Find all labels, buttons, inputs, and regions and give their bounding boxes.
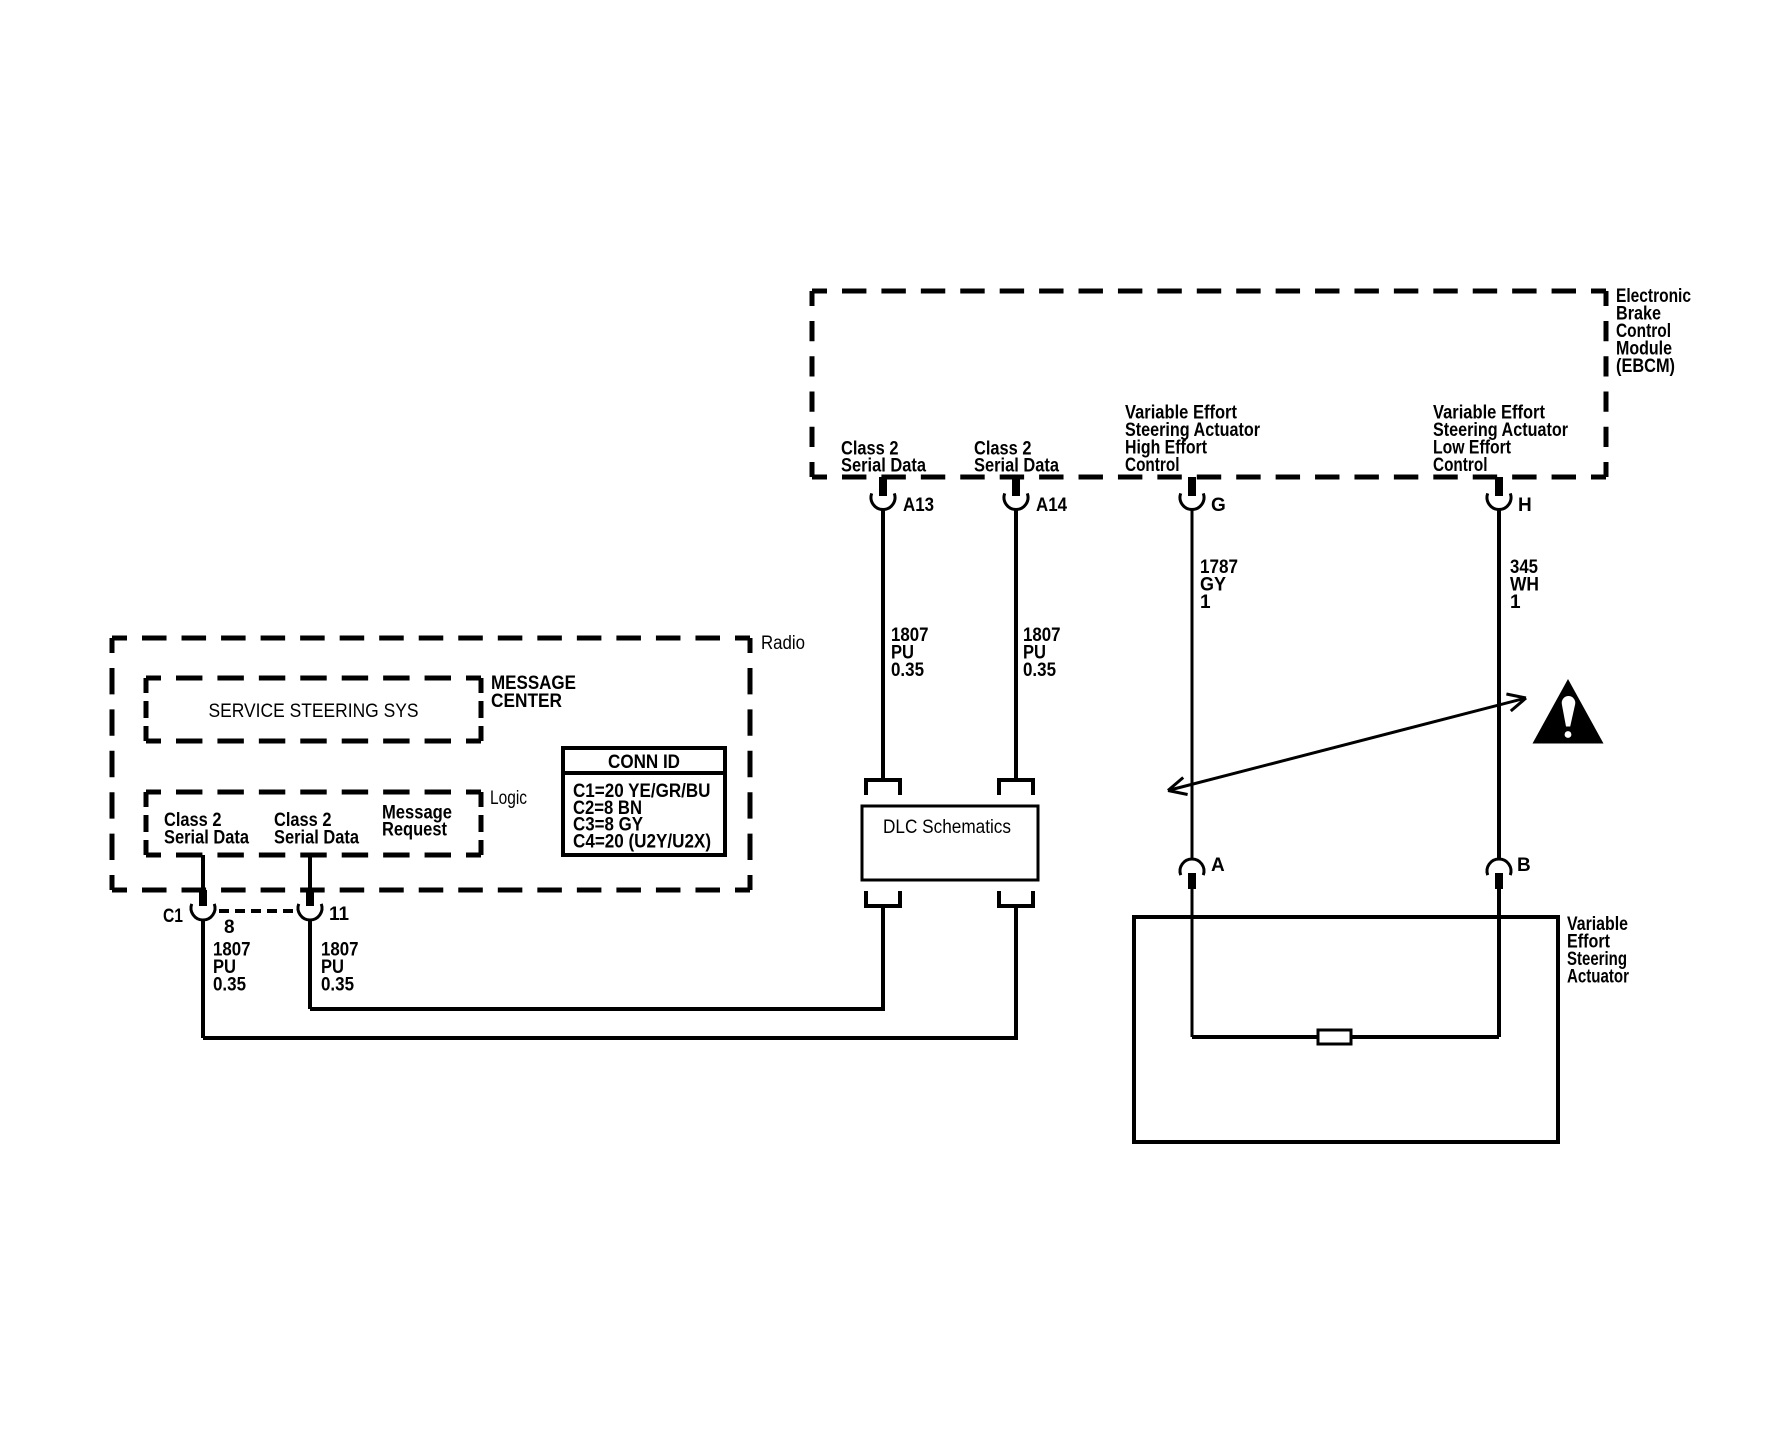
pin number H xyxy=(1518,495,1532,516)
pin number A13 xyxy=(903,495,934,516)
svg-text:Control: Control xyxy=(1433,455,1488,476)
svg-text:C4=20 (U2Y/U2X): C4=20 (U2Y/U2X) xyxy=(573,832,711,853)
Message Center display box xyxy=(146,678,481,741)
svg-text:Radio: Radio xyxy=(761,633,805,654)
wire value label 1807 PU 0.35 (pin 8 wire) xyxy=(213,940,251,996)
wire from DLC bottom-right to radio pin 8 xyxy=(203,906,1016,1038)
pin G terminal stub xyxy=(1188,477,1196,496)
svg-text:CONN ID: CONN ID xyxy=(608,752,680,773)
pin H connector cup xyxy=(1487,493,1511,509)
wire message request inside radio (pin 11) xyxy=(308,855,312,890)
svg-text:1: 1 xyxy=(1200,592,1211,613)
pin A14 connector cup xyxy=(1004,493,1028,509)
radio pin 11 terminal stub xyxy=(306,890,314,906)
svg-text:Logic: Logic xyxy=(490,788,527,809)
component label Electronic Brake Control Module (EBCM) xyxy=(1616,286,1691,377)
svg-text:Serial Data: Serial Data xyxy=(841,456,926,477)
CONN ID table xyxy=(563,748,725,855)
pin number 8 xyxy=(224,917,235,938)
svg-text:CENTER: CENTER xyxy=(491,691,562,712)
wire 1807 PU from A14 to DLC xyxy=(1014,509,1018,780)
pin number G xyxy=(1211,495,1226,516)
wire 1807 PU from pin 11 xyxy=(308,920,312,1009)
Variable Effort Steering Actuator box xyxy=(1134,917,1558,1142)
svg-text:Serial Data: Serial Data xyxy=(164,828,249,849)
component label Variable Effort Steering Actuator xyxy=(1567,914,1629,988)
svg-text:A: A xyxy=(1211,855,1225,876)
component label MESSAGE CENTER xyxy=(491,673,576,712)
svg-text:0.35: 0.35 xyxy=(1023,660,1056,681)
radio pin 8 terminal stub xyxy=(199,890,207,906)
pin G connector cup xyxy=(1180,493,1204,509)
svg-text:DLC Schematics: DLC Schematics xyxy=(883,817,1011,838)
wire value label 345 WH 1 (H wire) xyxy=(1510,557,1539,613)
svg-text:SERVICE STEERING SYS: SERVICE STEERING SYS xyxy=(209,701,419,722)
svg-text:11: 11 xyxy=(329,904,349,925)
pin H terminal stub xyxy=(1495,477,1503,496)
net label Class 2 Serial Data at pin A13 xyxy=(841,439,926,477)
wire 1807 PU from pin 8 xyxy=(201,920,205,1038)
wire 345 WH from H to actuator pin B xyxy=(1497,509,1501,859)
wire pin B to resistor xyxy=(1497,889,1501,1037)
svg-text:0.35: 0.35 xyxy=(213,975,246,996)
pin A13 connector cup xyxy=(871,493,895,509)
wire from DLC bottom-left to radio pin 11 xyxy=(310,906,883,1009)
svg-text:Request: Request xyxy=(382,820,448,841)
Electronic Brake Control Module (EBCM) box xyxy=(812,291,1606,477)
net label Class 2 Serial Data at radio pin 11 xyxy=(274,810,359,849)
wire Class 2 serial data inside radio (pin 8) xyxy=(201,855,205,890)
warning triangle symbol xyxy=(1533,679,1604,744)
wire resistor right lead xyxy=(1351,1035,1499,1039)
wire value label 1807 PU 0.35 (A14 wire) xyxy=(1023,625,1061,681)
actuator pin A terminal stub xyxy=(1188,873,1196,889)
connector designator C1 xyxy=(163,906,183,927)
svg-text:(EBCM): (EBCM) xyxy=(1616,356,1675,377)
component label Logic xyxy=(490,788,527,809)
wire resistor left lead xyxy=(1192,1035,1318,1039)
display text SERVICE STEERING SYS xyxy=(209,701,419,722)
net label Class 2 Serial Data at pin A14 xyxy=(974,439,1059,477)
svg-text:1: 1 xyxy=(1510,592,1521,613)
svg-text:Actuator: Actuator xyxy=(1567,967,1629,988)
svg-text:Control: Control xyxy=(1125,455,1180,476)
DLC top-left connector staple xyxy=(866,780,900,795)
radio pin C1-8 connector cup xyxy=(191,904,215,920)
pin number A xyxy=(1211,855,1225,876)
wire value label 1807 PU 0.35 (pin 11 wire) xyxy=(321,940,359,996)
svg-text:G: G xyxy=(1211,495,1226,516)
net label Variable Effort Steering Actuator High Effort Control at pin G xyxy=(1125,403,1261,477)
svg-text:Serial Data: Serial Data xyxy=(274,828,359,849)
CONN ID table text xyxy=(573,752,711,853)
DLC top-right connector staple xyxy=(999,780,1033,795)
net label Message Request xyxy=(382,803,452,841)
short-circuit double arrow across wires xyxy=(1168,698,1526,791)
actuator pin A connector dome xyxy=(1180,859,1204,875)
pin A13 terminal stub xyxy=(879,477,887,496)
radio pin C1-11 connector cup xyxy=(298,904,322,920)
pin number A14 xyxy=(1036,495,1067,516)
actuator motor winding element xyxy=(1318,1030,1351,1044)
wire 1787 GY from G to actuator pin A xyxy=(1191,509,1194,859)
svg-text:8: 8 xyxy=(224,917,235,938)
connector C1 dashed tie line xyxy=(219,909,293,913)
Logic box xyxy=(146,792,481,855)
DLC bottom-left connector staple xyxy=(866,891,900,906)
wire pin A to resistor xyxy=(1191,889,1194,1037)
wire value label 1807 PU 0.35 (A13 wire) xyxy=(891,625,929,681)
pin number 11 xyxy=(329,904,349,925)
component label DLC Schematics xyxy=(883,817,1011,838)
DLC Schematics box xyxy=(862,806,1038,880)
svg-text:H: H xyxy=(1518,495,1532,516)
svg-text:0.35: 0.35 xyxy=(891,660,924,681)
svg-text:C1: C1 xyxy=(163,906,183,927)
net label Class 2 Serial Data at radio pin 8 xyxy=(164,810,249,849)
actuator pin B connector dome xyxy=(1487,859,1511,875)
pin number B xyxy=(1517,855,1531,876)
svg-text:A14: A14 xyxy=(1036,495,1067,516)
net label Variable Effort Steering Actuator Low Effort Control at pin H xyxy=(1433,403,1569,477)
svg-text:B: B xyxy=(1517,855,1531,876)
DLC bottom-right connector staple xyxy=(999,891,1033,906)
svg-text:A13: A13 xyxy=(903,495,934,516)
wire value label 1787 GY 1 (G wire) xyxy=(1200,557,1238,613)
pin A14 terminal stub xyxy=(1012,477,1020,496)
actuator pin B terminal stub xyxy=(1495,873,1503,889)
component label Radio xyxy=(761,633,805,654)
wire 1807 PU from A13 to DLC xyxy=(881,509,885,780)
svg-text:Serial Data: Serial Data xyxy=(974,456,1059,477)
svg-text:0.35: 0.35 xyxy=(321,975,354,996)
Radio box xyxy=(112,638,750,890)
